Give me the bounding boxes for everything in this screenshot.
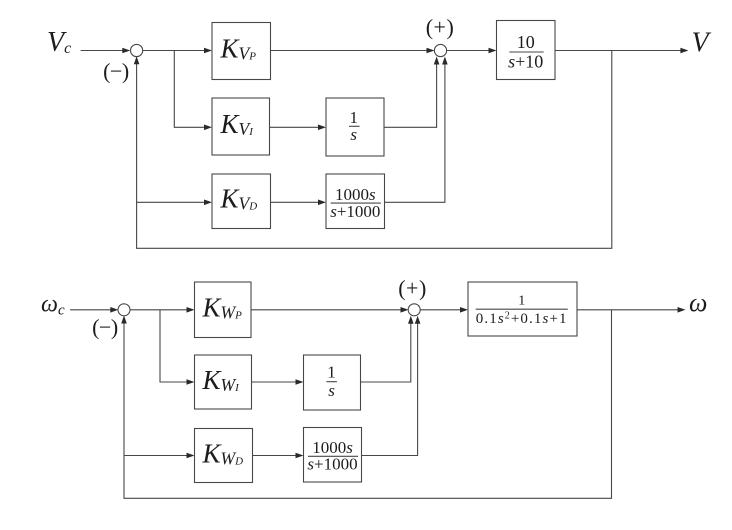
block KWP: [195, 282, 252, 338]
svg-text:ωc: ωc: [41, 291, 65, 318]
summing junction S1: [131, 44, 143, 56]
svg-text:(−): (−): [92, 315, 118, 340]
wire: 1/s output up into S2: [384, 57, 439, 128]
wire: Vc input to summing junction S1: [81, 48, 131, 54]
block KVP: [212, 23, 271, 80]
wire: feedback tap to block KWD: [124, 453, 195, 459]
wire: omega_c input to summing junction S3: [70, 307, 118, 313]
block KWD: [195, 429, 253, 483]
block KVI: [212, 98, 270, 155]
wire: KWI to integrator 1/s (bottom): [252, 379, 304, 385]
block KVD: [212, 174, 271, 229]
svg-text:s: s: [328, 381, 335, 400]
block 10/(s+10): [497, 21, 556, 80]
wire: error branch down to block KWI: [160, 310, 195, 385]
wire: KWD to derivative filter (bottom): [253, 453, 304, 459]
wire: derivative filter output up into S4: [362, 316, 421, 456]
wire: KVD to derivative filter 1000s/(s+1000): [271, 200, 327, 206]
svg-text:ω: ω: [689, 288, 707, 317]
svg-text:1: 1: [518, 294, 525, 309]
svg-text:s: s: [350, 125, 357, 144]
svg-text:0.1s2+0.1s+1: 0.1s2+0.1s+1: [476, 311, 568, 328]
svg-text:s+1000: s+1000: [307, 455, 357, 474]
svg-text:Vc: Vc: [47, 27, 71, 58]
wire: plant output to omega with feedback tap: [577, 307, 686, 313]
wire: bottom feedback from output down and into S3: [121, 310, 611, 499]
wire: S4 to plant 1/(0.1s^2+0.1s+1): [420, 307, 468, 313]
wire: KWP to summing junction S4: [251, 307, 409, 313]
block 1/s (bottom): [304, 355, 361, 410]
svg-text:(+): (+): [426, 15, 455, 40]
block KWI: [195, 355, 252, 409]
wire: S3 error to block KWP: [130, 307, 195, 313]
wire: KVI to integrator 1/s: [270, 125, 327, 131]
wire: plant output to V with feedback tap: [555, 48, 688, 54]
wire: top feedback from output down and into S1: [134, 51, 612, 249]
svg-text:V: V: [692, 27, 712, 58]
svg-text:(+): (+): [398, 276, 427, 301]
wire: error branch down to block KVI: [174, 51, 212, 131]
summing junction S4: [408, 304, 420, 316]
svg-text:s+1000: s+1000: [330, 202, 380, 221]
svg-text:s+10: s+10: [508, 51, 543, 71]
wire: feedback tap to block KVD: [137, 200, 212, 206]
block 1/s (top): [326, 98, 384, 156]
block 1000s/(s+1000) (top): [326, 174, 385, 229]
wire: 1/s output up into S4: [361, 316, 414, 382]
svg-text:(−): (−): [103, 59, 129, 84]
wire: S1 error to block KVP: [142, 48, 212, 54]
summing junction S2: [434, 44, 446, 56]
block 1000s/(s+1000) (bottom): [304, 428, 362, 483]
wire: KVP to summing junction S2: [271, 48, 435, 54]
svg-text:1: 1: [349, 108, 358, 127]
svg-text:10: 10: [517, 32, 535, 52]
wire: S2 to plant 10/(s+10): [446, 48, 496, 54]
summing junction S3: [118, 304, 130, 316]
svg-text:1: 1: [327, 363, 336, 382]
wire: 1000s filter output up into S2: [385, 57, 448, 203]
block 1/(0.1s^2+0.1s+1): [468, 282, 577, 336]
